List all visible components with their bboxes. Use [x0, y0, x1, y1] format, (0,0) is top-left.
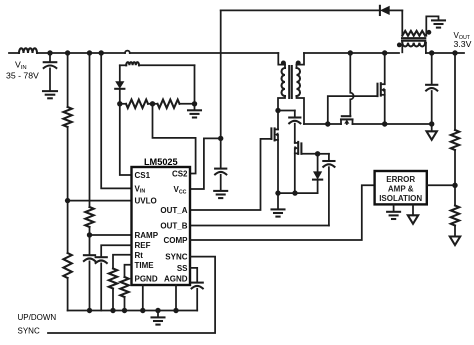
svg-text:UP/DOWN: UP/DOWN — [18, 313, 57, 322]
choke polarity dot top — [427, 30, 432, 35]
pin label VIN pin — [135, 184, 146, 194]
node bus PGND — [140, 308, 145, 313]
wire choke top winding to ground — [425, 16, 438, 35]
node CS ground — [192, 101, 197, 106]
wire R_uvlo_bot to ground bus — [67, 278, 69, 311]
inductor L1 input filter — [19, 48, 37, 53]
wire primary ground rail — [278, 192, 318, 194]
op-amp U1 LM5025 box — [132, 167, 191, 285]
wire CS2 to pin — [153, 104, 196, 174]
wire Q2 source joins rail — [294, 192, 296, 194]
wire VCC to pin — [190, 138, 221, 189]
wire TIME to resistor — [125, 265, 132, 277]
wire PGND to bus — [142, 285, 144, 311]
node Q4 source rail — [382, 121, 387, 126]
ground main bus — [152, 311, 165, 325]
transistor Q3 sync rectifier — [341, 116, 353, 124]
pin label SYNC — [165, 253, 187, 262]
wire rail to R_uvlo_top — [67, 53, 69, 107]
node bus RAMP — [87, 308, 92, 313]
wire RAMP to pin — [90, 234, 132, 236]
wire OUT_A to Q1 gate — [190, 139, 271, 210]
wire R_uvlo_top to UVLO node — [67, 127, 69, 201]
wire diode to choke top winding — [401, 9, 403, 11]
wire SYNC input — [48, 257, 215, 333]
wire divider mid — [454, 150, 456, 185]
wire input line left segment — [9, 52, 19, 54]
ground error amp triangle — [408, 204, 418, 223]
label VIN — [6, 59, 39, 80]
transformer T1 secondary winding — [297, 65, 305, 124]
wire secondary bottom rail right — [353, 123, 432, 125]
node bus main ground — [155, 308, 160, 313]
wire Q3 gate vertical with hop — [350, 53, 353, 116]
capacitor C_out — [426, 53, 437, 124]
svg-text:CS2: CS2 — [172, 170, 188, 179]
wire gate node to coupling cap — [318, 153, 329, 155]
pin label TIME — [135, 261, 155, 270]
node secondary return — [429, 121, 434, 126]
transformer T1 polarity dot secondary — [296, 61, 301, 66]
wire VCC bias vertical from top line — [220, 10, 222, 138]
svg-text:ISOLATION: ISOLATION — [379, 194, 422, 203]
node CS2 divider — [150, 101, 155, 106]
transistor Q2 clamp switch — [295, 142, 302, 193]
capacitor C_ramp — [84, 255, 95, 261]
ground secondary return triangle — [427, 124, 437, 140]
resistor R_t — [109, 269, 117, 289]
diode D_cs — [115, 65, 124, 104]
svg-text:AGND: AGND — [164, 274, 188, 283]
wire ground bus — [68, 310, 198, 312]
label LM5025 — [144, 157, 178, 167]
svg-text:SS: SS — [177, 264, 188, 273]
wire AGND to bus — [175, 285, 177, 311]
svg-text:3.3V: 3.3V — [454, 39, 472, 49]
node input cap junction — [47, 50, 52, 55]
pin label OUT_A — [160, 206, 187, 215]
svg-text:CS1: CS1 — [135, 171, 151, 180]
wire Rt to resistor — [113, 255, 132, 269]
node clamp diode — [315, 151, 320, 156]
wire primary bottom to clamp cap — [278, 110, 295, 112]
resistor R_ramp — [85, 207, 93, 227]
node Q3 gate branch — [348, 50, 353, 55]
capacitor C_ref — [96, 257, 107, 263]
wire VOUT to divider — [454, 53, 456, 130]
choke polarity dot bottom — [397, 43, 402, 48]
svg-text:SYNC: SYNC — [18, 326, 40, 335]
capacitor C_in input — [44, 53, 57, 91]
node VIN pin branch on rail — [99, 50, 104, 55]
resistor R_cs1 — [120, 100, 153, 108]
wire rail corner to primary top — [278, 53, 285, 65]
wire C_ramp to ground bus — [89, 261, 91, 310]
pin label CS2 — [172, 170, 188, 179]
label VOUT — [454, 31, 472, 49]
node UVLO — [65, 198, 70, 203]
svg-text:VIN: VIN — [15, 59, 27, 70]
svg-text:Rt: Rt — [135, 251, 144, 260]
node VOUT — [452, 50, 457, 55]
label ERROR AMP ISOLATION — [379, 175, 422, 203]
wire SS to cap — [190, 268, 197, 282]
wire secondary top rail — [304, 52, 399, 54]
pin label OUT_B — [160, 221, 187, 230]
svg-text:OUT_B: OUT_B — [160, 221, 187, 230]
svg-text:AMP &: AMP & — [388, 184, 414, 193]
wire rail to R_ramp — [89, 53, 91, 207]
wire COMP to error amp — [190, 185, 375, 240]
wire CT secondary right to ground node — [194, 65, 196, 104]
resistor R_uvlo_bot — [63, 253, 71, 278]
wire C_ref to ground bus — [100, 263, 102, 310]
pin label VCC — [174, 185, 187, 195]
ground VCC cap — [214, 175, 227, 198]
label UP/DOWN SYNC — [18, 313, 57, 335]
wire UVLO to pin — [68, 200, 132, 202]
node RAMP branch on rail — [87, 50, 92, 55]
pin label COMP — [164, 236, 189, 245]
node CS1 — [117, 101, 122, 106]
resistor R_cs2 — [153, 100, 195, 108]
transistor Q4 sync rectifier — [378, 83, 385, 124]
wire OUT_B to coupling cap — [190, 225, 329, 227]
node Q1 source — [275, 190, 280, 195]
inductor L2 output choke bottom winding — [402, 43, 426, 53]
wire Q2 gate lead — [301, 153, 317, 155]
ground choke top winding — [432, 20, 445, 27]
wire input rail to CT — [37, 52, 125, 54]
node VCC — [218, 136, 223, 141]
svg-text:ERROR: ERROR — [386, 175, 415, 184]
transistor Q1 main switch — [271, 111, 278, 194]
svg-text:REF: REF — [135, 241, 151, 250]
current-sense transformer CT1 secondary — [120, 62, 195, 65]
ground feedback divider triangle — [450, 226, 460, 246]
pin label PGND — [135, 274, 158, 283]
diode D_bias — [380, 6, 402, 15]
node output cap — [429, 50, 434, 55]
resistor R_time — [120, 277, 128, 297]
ground primary power — [272, 193, 285, 217]
transformer T1 core — [289, 66, 292, 98]
pin label RAMP — [135, 231, 159, 240]
pin label AGND — [164, 274, 188, 283]
wire REF to cap — [101, 245, 131, 256]
capacitor C_ss — [192, 283, 203, 289]
pin label UVLO — [135, 197, 157, 206]
node feedback — [452, 183, 457, 188]
wire R_time to ground bus — [124, 297, 126, 311]
transformer T1 polarity dot primary — [281, 61, 286, 66]
node RAMP — [87, 232, 92, 237]
svg-text:UVLO: UVLO — [135, 197, 157, 206]
wire R_ramp to RAMP node — [89, 227, 91, 235]
wire secondary bottom rail left — [304, 123, 341, 125]
node UVLO branch on rail — [65, 50, 70, 55]
pin label SS — [177, 264, 188, 273]
wire UVLO node down — [67, 201, 69, 253]
ground error amp — [387, 204, 400, 219]
wire R_t to ground bus — [112, 289, 114, 311]
svg-text:TIME: TIME — [135, 261, 155, 270]
resistor R_fb_top — [451, 130, 459, 150]
wire Q4 gate — [328, 96, 378, 124]
ground input cap — [43, 91, 57, 98]
node Q4 drain — [382, 50, 387, 55]
resistor R_fb_bot — [451, 185, 459, 225]
node primary bottom — [275, 108, 280, 113]
pin label CS1 — [135, 171, 151, 180]
node bus TIME — [122, 308, 127, 313]
svg-text:RAMP: RAMP — [135, 231, 159, 240]
capacitor C_vcc — [215, 138, 226, 174]
svg-text:PGND: PGND — [135, 274, 158, 283]
capacitor C_clamp — [289, 111, 300, 142]
svg-text:SYNC: SYNC — [165, 253, 187, 262]
wire CS1 to pin — [120, 104, 132, 175]
inductor L2 top winding — [402, 10, 425, 35]
node bus Rt — [110, 308, 115, 313]
svg-text:LM5025: LM5025 — [144, 157, 178, 167]
pin label REF — [135, 241, 151, 250]
transformer T1 primary winding — [278, 65, 285, 111]
current-sense transformer CT1 primary hump — [125, 51, 130, 53]
wire input rail CT to transformer corner — [130, 52, 278, 54]
choke core — [402, 38, 425, 41]
op-amp U2 error amp box — [375, 171, 427, 204]
wire VIN pin line — [101, 53, 131, 188]
wire error amp to feedback node — [427, 184, 455, 186]
svg-text:OUT_A: OUT_A — [160, 206, 187, 215]
resistor R_uvlo_top — [63, 107, 71, 127]
node Q4 gate branch — [325, 121, 330, 126]
wire top bias line — [221, 9, 380, 11]
svg-text:35 - 78V: 35 - 78V — [6, 70, 39, 80]
capacitor C_outb coupling — [323, 154, 334, 226]
wire secondary top lead — [297, 53, 305, 65]
diode D_clamp — [313, 154, 322, 193]
wire RAMP node to C_ramp — [89, 235, 91, 255]
node Q2 source — [292, 190, 297, 195]
wire output rail — [426, 52, 464, 54]
wire Q4 drain — [384, 53, 386, 84]
wire C_ss to bus — [196, 289, 198, 311]
ground CS network — [188, 104, 201, 118]
pin label Rt — [135, 251, 144, 260]
svg-text:COMP: COMP — [164, 236, 189, 245]
node bus AGND — [173, 308, 178, 313]
